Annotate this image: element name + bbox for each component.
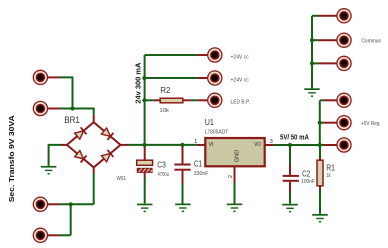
svg-text:W01: W01	[117, 176, 127, 182]
svg-text:C1: C1	[194, 159, 203, 168]
svg-text:GND: GND	[234, 150, 240, 163]
svg-text:VO: VO	[254, 142, 261, 148]
svg-text:5V/ 50 mA: 5V/ 50 mA	[280, 132, 309, 141]
svg-text:2: 2	[228, 175, 234, 178]
svg-text:R2: R2	[160, 85, 170, 95]
svg-text:VI: VI	[209, 142, 214, 148]
svg-text:BR1: BR1	[64, 115, 80, 125]
svg-text:L7805ADT: L7805ADT	[205, 130, 229, 136]
svg-text:R1: R1	[326, 163, 335, 173]
svg-text:10k: 10k	[159, 108, 169, 114]
svg-text:Commun: Commun	[361, 39, 381, 45]
svg-text:+24V cc: +24V cc	[231, 77, 249, 83]
svg-text:+24V cc: +24V cc	[231, 54, 249, 60]
svg-text:Sec. Transfo 9V 30VA: Sec. Transfo 9V 30VA	[7, 115, 16, 203]
svg-text:330nF: 330nF	[194, 171, 209, 177]
svg-text:C3: C3	[157, 159, 166, 169]
svg-text:1: 1	[194, 139, 197, 145]
svg-text:4700u: 4700u	[158, 172, 170, 178]
svg-text:+5V Reg: +5V Reg	[361, 121, 380, 127]
svg-text:C2: C2	[302, 170, 310, 179]
svg-text:3: 3	[270, 139, 273, 145]
svg-text:24v 300 mA: 24v 300 mA	[133, 62, 142, 104]
svg-text:100nF: 100nF	[301, 179, 315, 185]
svg-text:LED B.P.: LED B.P.	[231, 100, 251, 106]
svg-text:U1: U1	[205, 117, 214, 127]
svg-text:1k: 1k	[326, 173, 331, 179]
